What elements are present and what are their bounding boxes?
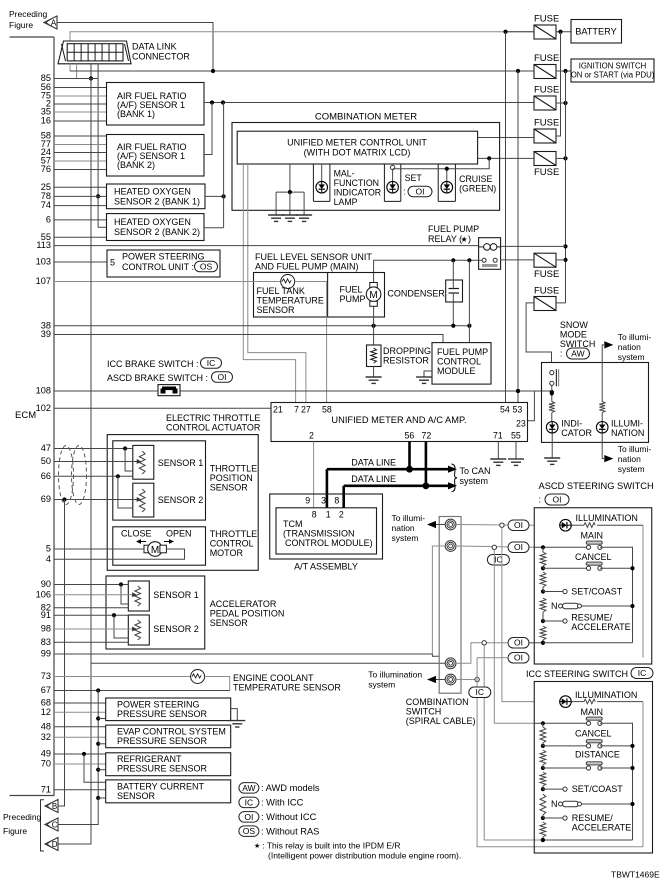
accel sensor 1 potentiometer (135, 586, 141, 606)
svg-text:SENSOR: SENSOR (257, 305, 296, 315)
wire fuse4 right to battery vertical (556, 32, 561, 136)
wire fuse6 right to ignition vertical (556, 259, 566, 261)
svg-text:TCM: TCM (283, 519, 303, 529)
wire ASCD cancel wiring (543, 566, 635, 570)
SET indicator lamp (387, 181, 399, 193)
wire fuse3 right to ignition feed (556, 101, 568, 105)
wire ICC main feed (534, 721, 586, 725)
wire ECM pin 5 to throttle motor (54, 548, 144, 550)
wire ECM pin 12 (54, 711, 106, 713)
wire fuse4 from unified meter battery feed (478, 137, 534, 139)
IC legend oval (239, 797, 259, 808)
svg-text:CRUISE: CRUISE (459, 174, 492, 184)
snow INDICATOR lamp (546, 422, 558, 434)
wire resistor to illumination lamp (601, 413, 603, 422)
footnote star relay (254, 840, 461, 860)
svg-text:2: 2 (309, 431, 314, 441)
wire ECM pin 38 fuel pump return (54, 324, 472, 328)
wire ECM pin 16 to A/F sensor bank1 (54, 120, 107, 122)
svg-text:48: 48 (41, 721, 51, 731)
wire ECM pin 32 (54, 736, 106, 738)
svg-text:UNIFIED METER AND A/C AMP.: UNIFIED METER AND A/C AMP. (331, 415, 466, 425)
wire ECM pin 66 to throttle sensors (54, 474, 133, 508)
svg-text:99: 99 (41, 649, 51, 659)
wire ECM pin 102 to unified meter amp (54, 407, 271, 409)
svg-text:system: system (392, 533, 419, 543)
svg-text:B: B (52, 802, 57, 811)
amp pin labels top (273, 405, 522, 415)
label Preceding Figure bottom (3, 812, 42, 836)
fuse F5 (534, 152, 556, 166)
svg-text:★: ★ (461, 235, 468, 244)
fuel pump relay box (479, 238, 501, 270)
TCM box (276, 508, 377, 554)
svg-text:55: 55 (511, 431, 521, 441)
wire ECM pin 73 to engine coolant sensor (54, 676, 191, 678)
label FUEL TANK TEMPERATURE SENSOR (257, 286, 324, 315)
svg-text:MOTOR: MOTOR (210, 548, 244, 558)
svg-text:Figure: Figure (3, 826, 27, 836)
svg-text:47: 47 (41, 443, 51, 453)
svg-text:M: M (151, 545, 159, 556)
arrow data line 1 to CAN (448, 466, 457, 473)
svg-text:system: system (460, 476, 489, 486)
svg-text:OI: OI (553, 494, 562, 504)
svg-text:SET/COAST: SET/COAST (572, 784, 624, 794)
svg-text:71: 71 (41, 784, 51, 794)
ASCD illumination lamp (560, 519, 572, 531)
svg-text:(GREEN): (GREEN) (459, 184, 496, 194)
wire ECM pin 85 to DLC (54, 78, 98, 80)
wire fuse7 to snow mode switch (526, 303, 551, 363)
svg-text:POWER STEERING: POWER STEERING (117, 700, 200, 710)
svg-text:4: 4 (46, 554, 51, 564)
wire ECM pin 78 to heated oxygen sensor bank1 with DLC junction (54, 195, 107, 197)
svg-text:39: 39 (41, 329, 51, 339)
wire fuel pump to line 38 (373, 306, 375, 325)
throttle sensor 2 potentiometer (139, 489, 145, 512)
combination meter ground bus (276, 164, 304, 215)
svg-text:98: 98 (41, 624, 51, 634)
svg-text:ENGINE COOLANT: ENGINE COOLANT (233, 673, 314, 683)
svg-text:UNIFIED METER CONTROL UNIT: UNIFIED METER CONTROL UNIT (287, 138, 427, 148)
wire snow illumination feed (601, 363, 603, 402)
svg-text:RESUME/: RESUME/ (571, 613, 613, 623)
svg-text:: AWD models: : AWD models (261, 783, 320, 793)
ASCD CANCEL switch contacts (586, 562, 602, 570)
svg-text:: Without RAS: : Without RAS (261, 826, 319, 836)
ICC MAIN switch contacts (586, 717, 602, 725)
svg-text:SENSOR 2: SENSOR 2 (153, 624, 199, 634)
AW legend oval (239, 783, 259, 794)
ground snow indicator (544, 458, 560, 464)
svg-text:49: 49 (41, 749, 51, 759)
label FUEL LEVEL SENSOR UNIT AND FUEL PUMP MAIN (255, 252, 372, 272)
label DROPPING RESISTOR (383, 346, 431, 366)
svg-text:MAL-: MAL- (334, 169, 355, 179)
wire DLC drop to heated oxygen sensor bank 2 (96, 64, 107, 228)
electric throttle control actuator box (107, 435, 258, 571)
wire ICC illumination feed (502, 527, 534, 701)
ASCD set coast contact (543, 589, 567, 593)
svg-text:SENSOR 2 (BANK 1): SENSOR 2 (BANK 1) (114, 197, 200, 207)
spiral cable contact ring 3 (445, 658, 456, 669)
svg-text:nation: nation (618, 342, 641, 352)
node open circle SET feed (390, 165, 394, 169)
svg-text:nation: nation (392, 523, 415, 533)
wire ECM pin 70 (54, 763, 106, 765)
OS legend oval (239, 826, 259, 837)
wire relay output to fuel pump control module (468, 260, 470, 342)
arrow open (164, 539, 174, 544)
svg-text:POWER STEERING: POWER STEERING (122, 252, 205, 262)
ground amp pin 71 (490, 459, 506, 465)
svg-text:FUSE: FUSE (534, 14, 559, 25)
wire ECM pin 82 accel sensor1 low (54, 607, 128, 609)
svg-text:(BANK 1): (BANK 1) (117, 109, 155, 119)
wire condenser to line 38 (452, 302, 454, 326)
accel sensor 2 potentiometer (135, 620, 141, 640)
svg-text:TBWT1469E: TBWT1469E (611, 870, 660, 880)
svg-text:DATA LINE: DATA LINE (351, 458, 396, 468)
label HEATED OXYGEN SENSOR 2 (BANK 1) (114, 187, 200, 207)
label SNOW MODE SWITCH AW (560, 320, 596, 359)
label INDI-CATOR (561, 419, 592, 438)
svg-text:ILLUMINATION: ILLUMINATION (575, 690, 637, 700)
svg-text:ILLUMINATION: ILLUMINATION (576, 513, 638, 523)
svg-text:HEATED OXYGEN: HEATED OXYGEN (114, 217, 191, 227)
svg-text:FUSE: FUSE (534, 286, 559, 297)
OI oval ASCD illumination (508, 520, 529, 531)
svg-text:FUEL PUMP: FUEL PUMP (428, 224, 479, 234)
label RESUME ACCELERATE icc (572, 813, 631, 833)
ground dropping resistor (366, 377, 382, 383)
svg-text:REFRIGERANT: REFRIGERANT (117, 754, 182, 764)
OI oval ASCD illumination return (508, 653, 529, 664)
wire ECM pin 24 to A/F sensor bank2 (54, 152, 107, 154)
label MAL-FUNCTION INDICATOR LAMP (334, 169, 382, 208)
svg-text:3: 3 (321, 496, 326, 506)
snow indicator resistor (549, 402, 555, 413)
wire ICC main to right return (600, 723, 633, 840)
svg-text:CONNECTOR: CONNECTOR (132, 52, 190, 62)
fuel pump relay coil (479, 244, 501, 251)
wire condenser top from relay (452, 260, 454, 280)
wire ignition feed vertical to meter amp pin 53 (516, 71, 520, 403)
malfunction indicator lamp housing (313, 164, 330, 201)
wire fuse1 to battery box (503, 30, 571, 34)
label TCM TRANSMISSION CONTROL MODULE (283, 519, 373, 548)
svg-text:N: N (551, 601, 558, 611)
wire ignition fuse5 to SET and CRUISE lamps (393, 158, 490, 170)
arrow ring4 to illumination (427, 676, 436, 683)
wire unified meter output to amp pin 27 (248, 164, 306, 403)
wire line38 down to dropping resistor (373, 326, 375, 345)
battery box (571, 20, 622, 44)
svg-text:system: system (618, 464, 645, 474)
svg-text:D: D (52, 840, 58, 849)
wire ECM pin 47 to throttle sensor1 (54, 446, 133, 471)
svg-text:2: 2 (339, 510, 344, 520)
svg-text:(BANK 2): (BANK 2) (117, 160, 155, 170)
wire ECM pin 113 to fuel pump relay coil (54, 245, 479, 247)
svg-text:108: 108 (36, 386, 51, 396)
dropping resistor box (367, 345, 382, 367)
svg-text:27: 27 (301, 405, 311, 415)
svg-text:DISTANCE: DISTANCE (575, 750, 620, 760)
wire relay coil to ignition vertical (501, 245, 566, 247)
svg-text:90: 90 (41, 579, 51, 589)
svg-text:(SPIRAL CABLE): (SPIRAL CABLE) (406, 716, 476, 726)
svg-text:To illumination: To illumination (368, 670, 422, 680)
svg-text:FUEL: FUEL (340, 285, 363, 295)
svg-text:72: 72 (422, 431, 432, 441)
label FUEL PUMP CONTROL MODULE (437, 347, 488, 376)
svg-text:SNOW: SNOW (560, 320, 589, 330)
snow mode switch contacts (550, 369, 559, 386)
svg-text:AW: AW (571, 348, 584, 358)
wire power steering sensor to ground (231, 709, 238, 721)
wire ECM pin 76 to A/F sensor bank2 (54, 169, 107, 171)
svg-text:IC: IC (207, 358, 216, 368)
snow illumination resistor (599, 402, 605, 413)
wire ECM pin 99 to combination switch (54, 654, 439, 656)
wire heated oxygen bank1 output (205, 103, 226, 228)
IC oval ICC feeds (487, 554, 509, 565)
amp pin labels bottom (309, 431, 521, 441)
OI legend oval (239, 812, 259, 823)
ASCD resume contact (543, 619, 567, 623)
svg-text:: Without ICC: : Without ICC (261, 812, 317, 822)
label POWER STEERING PRESSURE SENSOR (117, 700, 208, 720)
wire ECM pin 108 brake switch line (54, 389, 554, 394)
svg-text:THROTTLE: THROTTLE (210, 529, 258, 539)
svg-text:OI: OI (244, 812, 253, 822)
svg-text:9: 9 (305, 496, 310, 506)
svg-text:POSITION: POSITION (210, 473, 253, 483)
fuse F7 snow mode (534, 297, 556, 311)
svg-text:★: ★ (254, 842, 260, 850)
fuse F4 (534, 129, 556, 143)
wire ring4 to illumination arrow (436, 679, 445, 681)
svg-text:ELECTRIC THROTTLE: ELECTRIC THROTTLE (166, 413, 260, 423)
wire ECM pin 57 to A/F sensor bank2 (54, 160, 107, 162)
ground amp pin 55 (508, 459, 524, 465)
svg-text:106: 106 (36, 589, 51, 599)
wire battery feed vertical to meter amp pin 54 (505, 32, 507, 403)
svg-text:AND FUEL PUMP (MAIN): AND FUEL PUMP (MAIN) (255, 262, 359, 272)
svg-text::: : (403, 187, 405, 197)
svg-text:5: 5 (46, 544, 51, 554)
svg-text:CONTROL: CONTROL (210, 539, 254, 549)
label ENGINE COOLANT TEMPERATURE SENSOR (233, 673, 341, 693)
accel sensor 1 box (128, 581, 149, 611)
accelerator pedal position sensor box (106, 576, 205, 649)
wire ECM pin 49 with battery current branch (54, 752, 106, 782)
wire sensor ground chain to connector C (58, 798, 98, 825)
wire DLC pin drop grey to pin 85 line (76, 64, 78, 79)
combination meter box (232, 123, 500, 211)
throttle control motor box (113, 527, 206, 565)
svg-text::: : (560, 349, 563, 359)
throttle sensor 1 potentiometer (139, 451, 145, 474)
wire ASCD main feed to contacts (534, 545, 586, 549)
svg-text:OI: OI (218, 372, 227, 382)
wire relay contact output to fuse6 (501, 259, 534, 261)
bracket preceding figure bottom (41, 800, 45, 851)
wire ring1 to illumination arrow (436, 524, 445, 526)
ground combination meter 2 (282, 215, 298, 221)
wire ICC distance wiring (543, 766, 635, 770)
svg-text:5: 5 (110, 258, 115, 268)
svg-text:CONTROL: CONTROL (437, 357, 481, 367)
svg-text:113: 113 (36, 240, 51, 250)
svg-text:: With ICC: : With ICC (261, 798, 304, 808)
label To illumination system ring4 (368, 670, 422, 690)
fuse F2 ignition (534, 65, 556, 79)
svg-text:102: 102 (36, 403, 51, 413)
CRUISE lamp housing (438, 164, 455, 201)
data link connector J1 (58, 41, 131, 64)
label ACCELERATOR PEDAL POSITION SENSOR (210, 599, 285, 628)
svg-text:COMBINATION: COMBINATION (406, 697, 469, 707)
OS oval power steering (195, 261, 218, 272)
wire fuse7 right to ignition vertical (556, 302, 566, 304)
ignition switch box (571, 59, 654, 82)
throttle sensor 1 box (133, 445, 154, 479)
sensor ground chain wire (96, 691, 106, 801)
svg-text:53: 53 (513, 405, 523, 415)
wire ignition feed vertical (563, 71, 567, 303)
label BATTERY CURRENT SENSOR (117, 782, 205, 802)
fuse F1 battery (534, 25, 556, 39)
wire amp pin 23 to brake line (528, 391, 535, 421)
fuse F6 fuel pump (534, 253, 556, 267)
wire resistor to indicator lamp (551, 413, 553, 422)
svg-text:66: 66 (41, 471, 51, 481)
wire ICC main feed (494, 550, 534, 724)
wire DLC battery line to fuse 1 (70, 32, 534, 41)
svg-text:MAIN: MAIN (581, 707, 604, 717)
label AIR FUEL RATIO (A/F) SENSOR 1 (BANK 2) (117, 142, 187, 170)
label ILLUMI-NATION snow (611, 419, 644, 438)
wire snow illumination lamp out to illumination system (602, 433, 604, 459)
svg-text:FUSE: FUSE (534, 85, 559, 96)
snow mode switch box (542, 363, 649, 443)
arrow data line 2 to CAN (448, 482, 457, 489)
svg-text:ACCELERATE: ACCELERATE (572, 823, 631, 833)
wire amp pin 2 to TCM pin 8 (313, 442, 315, 508)
svg-text:TEMPERATURE: TEMPERATURE (257, 296, 324, 306)
fuel pump control module box (432, 343, 491, 385)
A/F sensor 1 bank 2 box (107, 135, 205, 177)
wire ECM pin 69 to throttle sensor2 wiper (54, 497, 136, 501)
ASCD illumination resistor (571, 523, 643, 528)
svg-text:To CAN: To CAN (460, 466, 491, 476)
svg-text:TEMPERATURE SENSOR: TEMPERATURE SENSOR (233, 683, 341, 693)
svg-text:58: 58 (322, 405, 332, 415)
wire DLC vertical to connector D (58, 79, 91, 845)
svg-text:COMBINATION METER: COMBINATION METER (315, 112, 417, 123)
ICC CANCEL contacts (586, 740, 602, 748)
svg-text:CLOSE: CLOSE (121, 529, 152, 539)
svg-text:SENSOR 2: SENSOR 2 (158, 495, 204, 505)
wire engine coolant sensor loop to pin 67 (205, 677, 230, 691)
svg-text:OI: OI (416, 186, 425, 196)
wire ECM pin 67 sensor ground (54, 688, 230, 692)
svg-text:HEATED OXYGEN: HEATED OXYGEN (114, 187, 191, 197)
wire to illumination arrow above snow box (602, 345, 604, 363)
ground combination meter 1 (268, 215, 284, 221)
svg-text:CONTROL ACTUATOR: CONTROL ACTUATOR (166, 423, 261, 433)
data line CAN high from amp pin 56 (327, 442, 448, 508)
svg-text:AW: AW (242, 783, 255, 793)
wire ASCD main contact to right return (600, 547, 633, 643)
svg-text:A/T ASSEMBLY: A/T ASSEMBLY (294, 562, 358, 572)
arrow close (136, 539, 146, 544)
label To illumination system ring1 (392, 513, 426, 543)
svg-text:83: 83 (41, 637, 51, 647)
svg-text:ACCELERATOR: ACCELERATOR (210, 599, 277, 609)
svg-text:FUSE: FUSE (534, 269, 559, 280)
power steering control unit box (107, 250, 220, 277)
wire ICC chain bottom (541, 838, 633, 842)
wire shield drain to connector B (58, 500, 65, 807)
svg-text:IC: IC (476, 687, 485, 697)
svg-text:SENSOR 2 (BANK 2): SENSOR 2 (BANK 2) (114, 227, 200, 237)
svg-text:CONTROL MODULE): CONTROL MODULE) (285, 538, 373, 548)
svg-text:IC: IC (638, 668, 647, 678)
svg-text:76: 76 (41, 164, 51, 174)
ICC illumination resistor (571, 699, 643, 704)
fuel level sensor unit inner box (254, 273, 385, 318)
svg-text:OPEN: OPEN (166, 529, 192, 539)
svg-text:FUEL PUMP: FUEL PUMP (437, 347, 488, 357)
svg-text:PEDAL POSITION: PEDAL POSITION (210, 609, 285, 619)
heated oxygen sensor 2 bank 1 box (107, 184, 206, 209)
svg-text:OI: OI (514, 542, 523, 552)
ASCD MAIN switch contacts (586, 541, 602, 549)
ICC neutral capsule switch (559, 801, 635, 807)
ICC illumination lamp (560, 696, 572, 708)
svg-text:FUSE: FUSE (534, 167, 559, 178)
ICC set coast contact (543, 787, 567, 791)
IC oval lower feeds (469, 687, 491, 698)
svg-text:LAMP: LAMP (334, 197, 358, 207)
svg-text:EVAP CONTROL SYSTEM: EVAP CONTROL SYSTEM (117, 727, 226, 737)
svg-text:6: 6 (46, 215, 51, 225)
OI oval ASCD main (508, 542, 529, 553)
svg-text:SET/COAST: SET/COAST (571, 587, 623, 597)
svg-text:OI: OI (514, 520, 523, 530)
svg-text:50: 50 (41, 456, 51, 466)
fuel pump relay contact (482, 258, 498, 265)
wire ECM pin 68 (54, 702, 106, 704)
wire ECM pin 103 to power steering control unit (54, 261, 107, 263)
label EVAP CONTROL SYSTEM PRESSURE SENSOR (117, 727, 226, 747)
label COMBINATION SWITCH SPIRAL CABLE (406, 697, 476, 726)
ASCD steering switch box (534, 508, 652, 664)
svg-text:1: 1 (326, 510, 331, 520)
wire fuel pump control module ground (424, 371, 432, 377)
svg-text::: : (539, 495, 542, 505)
ECM pin number labels (36, 73, 51, 794)
svg-text:To illumi-: To illumi- (392, 513, 426, 523)
svg-text:ASCD STEERING SWITCH: ASCD STEERING SWITCH (539, 481, 654, 491)
wire ASCD illumination return right (642, 525, 644, 658)
condenser capacitor (446, 280, 463, 302)
wire amp pin 71 to ground (497, 442, 499, 460)
